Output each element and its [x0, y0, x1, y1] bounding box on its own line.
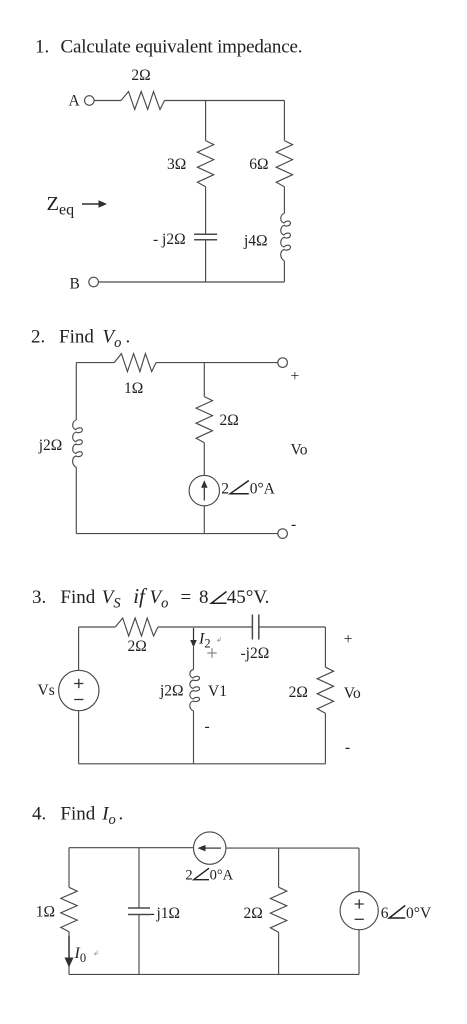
svg-text:.: . — [119, 804, 124, 825]
resistor 2ohm (middle) — [196, 397, 212, 443]
svg-text:6: 6 — [381, 905, 389, 922]
wire A to R 2ohm — [94, 100, 121, 102]
svg-text:- j2Ω: - j2Ω — [153, 231, 186, 248]
svg-text:2Ω: 2Ω — [128, 638, 147, 655]
bottom wire — [76, 533, 277, 535]
svg-text:45°V.: 45°V. — [227, 587, 270, 608]
inductor j4ohm — [281, 213, 291, 261]
wire 1ohm to V+ terminal — [156, 362, 278, 364]
wire top to 6ohm branch — [283, 101, 285, 141]
svg-text:0°A: 0°A — [210, 868, 234, 884]
voltage source Vs circle — [59, 670, 99, 710]
left wire to Vs — [78, 627, 80, 670]
svg-text:-j2Ω: -j2Ω — [241, 645, 270, 662]
resistor 1ohm (left) — [61, 887, 77, 931]
bottom wire B — [98, 281, 284, 283]
inductor j2ohm (left) — [73, 420, 83, 467]
svg-text:j2Ω: j2Ω — [159, 683, 184, 700]
capacitor -j1ohm — [128, 907, 150, 909]
right wire upper — [358, 848, 360, 891]
right wire upper — [324, 627, 326, 667]
wire 3ohm to cap — [205, 187, 207, 235]
wire inductor to bottom — [283, 261, 285, 282]
svg-text:3.: 3. — [32, 587, 46, 608]
svg-text:0°V: 0°V — [406, 905, 432, 922]
svg-text:Calculate equivalent impedance: Calculate equivalent impedance. — [61, 36, 303, 57]
svg-text:I2: I2 — [198, 631, 211, 651]
top-left corner wire — [76, 362, 114, 364]
svg-text:j2Ω: j2Ω — [38, 437, 63, 454]
resistor 6ohm — [276, 141, 292, 187]
resistor 2ohm (top) — [115, 618, 158, 636]
svg-text:-: - — [150, 905, 155, 922]
bottom wire — [69, 973, 359, 975]
svg-text:2Ω: 2Ω — [220, 412, 239, 429]
svg-text:2Ω: 2Ω — [244, 905, 263, 922]
svg-text:j1Ω: j1Ω — [156, 905, 181, 922]
svg-text:Find: Find — [60, 587, 95, 608]
top wire left segment — [79, 626, 116, 628]
bottom wire — [79, 763, 326, 765]
svg-text:Vo: Vo — [344, 685, 361, 702]
top wire right of source — [226, 847, 359, 849]
svg-text:8: 8 — [199, 587, 209, 608]
Vs minus — [74, 699, 83, 701]
left wire upper — [75, 363, 77, 420]
return mark 2 — [94, 951, 97, 956]
cap branch wire lower — [138, 915, 140, 975]
svg-text:2: 2 — [221, 481, 229, 498]
wire cap to bottom — [205, 240, 207, 282]
svg-text:Find: Find — [59, 327, 94, 348]
plus V1 — [207, 648, 216, 657]
source plus — [355, 899, 364, 908]
svg-text:2: 2 — [185, 868, 192, 884]
svg-text:=: = — [181, 587, 192, 608]
resistor 3ohm — [197, 141, 213, 187]
svg-text:V1: V1 — [208, 683, 227, 700]
svg-text:A: A — [69, 93, 81, 110]
resistor 2ohm (right) — [317, 667, 333, 713]
svg-text:+: + — [344, 631, 353, 648]
terminal + (top right) — [278, 358, 288, 368]
svg-text:2.: 2. — [31, 327, 45, 348]
wire 6ohm to inductor j4ohm — [283, 187, 285, 214]
middle wire to inductor — [193, 647, 195, 670]
left wire lower — [78, 711, 80, 764]
svg-text:0°A: 0°A — [250, 481, 276, 498]
current I2 arrow — [193, 628, 195, 640]
wire 2ohm to middle node — [158, 626, 252, 628]
svg-text:-: - — [291, 516, 296, 533]
svg-text:.: . — [126, 327, 131, 348]
capacitor -j2ohm — [194, 233, 217, 235]
svg-text:2Ω: 2Ω — [289, 684, 308, 701]
svg-text:I0: I0 — [74, 945, 87, 965]
right wire lower — [358, 930, 360, 975]
terminal B — [89, 277, 99, 287]
svg-text:-: - — [345, 739, 350, 756]
2ohm branch wire upper — [278, 848, 280, 888]
svg-text:B: B — [70, 276, 80, 293]
source minus — [355, 918, 364, 920]
svg-text:Io: Io — [101, 804, 116, 829]
svg-text:Zeq: Zeq — [47, 193, 75, 219]
return mark — [217, 637, 220, 642]
left wire lower — [75, 467, 77, 533]
right wire lower — [324, 713, 326, 764]
inductor j2ohm (middle) — [190, 670, 200, 712]
svg-text:1Ω: 1Ω — [124, 380, 143, 397]
current source 2A circle (top) — [194, 832, 226, 864]
svg-text:1Ω: 1Ω — [36, 904, 55, 921]
voltage source 6V circle — [340, 892, 378, 930]
svg-text:4.: 4. — [32, 804, 46, 825]
svg-text:6Ω: 6Ω — [249, 156, 268, 173]
svg-text:3Ω: 3Ω — [167, 156, 186, 173]
terminal A — [85, 96, 95, 106]
svg-text:-: - — [205, 718, 210, 735]
current source arrow left — [206, 847, 222, 849]
resistor 1ohm (top) — [114, 354, 156, 372]
Zeq arrow — [82, 203, 99, 205]
svg-text:j4Ω: j4Ω — [243, 233, 268, 250]
svg-text:Vs: Vs — [38, 682, 55, 699]
wire 1ohm to bottom — [68, 932, 70, 975]
current source 2A circle — [189, 475, 219, 505]
svg-text:Vo: Vo — [103, 327, 122, 352]
svg-text:Find: Find — [60, 804, 95, 825]
svg-text:+: + — [291, 368, 300, 385]
svg-text:1.: 1. — [35, 36, 49, 57]
svg-text:if: if — [133, 584, 148, 608]
wire R 2ohm to top-right corner — [165, 100, 285, 102]
cap branch wire upper — [138, 848, 140, 908]
svg-text:Vo: Vo — [150, 587, 169, 612]
resistor 2ohm (top) — [121, 92, 165, 110]
wire 2ohm to current source — [203, 443, 205, 476]
current Io arrow — [68, 936, 70, 958]
middle wire to bottom — [193, 711, 195, 764]
middle branch wire upper — [203, 363, 205, 397]
wire top node to 3ohm branch — [205, 101, 207, 141]
svg-text:Vo: Vo — [291, 442, 308, 459]
2ohm branch wire lower — [278, 932, 280, 974]
Vs plus — [74, 679, 83, 688]
top wire left of source — [69, 847, 194, 849]
svg-text:2Ω: 2Ω — [131, 67, 150, 84]
resistor 2ohm — [270, 887, 286, 932]
terminal - (bottom right) — [278, 529, 288, 539]
capacitor -j2ohm (top) — [251, 615, 253, 640]
svg-text:VS: VS — [102, 587, 122, 612]
wire cap to top right corner — [259, 626, 326, 628]
wire source to bottom — [203, 506, 205, 534]
left wire upper — [68, 848, 70, 888]
current source arrow — [203, 488, 205, 501]
